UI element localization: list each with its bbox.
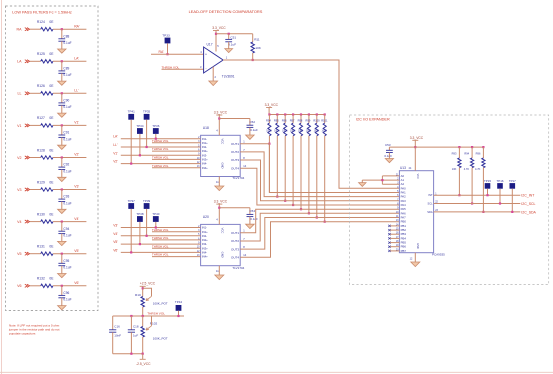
resistor R129 1K [41,188,53,191]
svg-text:LA: LA [17,60,22,64]
node U18 VCC branch [218,117,220,119]
node TP39 junction [146,235,148,237]
node RA' junction [61,28,63,30]
resistor R130 1K [41,220,53,223]
node R96 bottom junction [284,200,286,202]
wire cap to ground [61,137,63,145]
svg-text:TP39: TP39 [143,199,151,203]
wire THRSH VOL rail [113,315,184,317]
wire cap to ground [61,41,63,49]
wire cap lead [61,286,63,296]
svg-text:SDA: SDA [427,210,433,214]
resistor R132 1K [41,284,53,287]
svg-text:R124: R124 [37,20,45,24]
svg-text:3.3_VCC: 3.3_VCC [214,200,228,204]
resistor R94 4.7K I2C pull-up [471,147,473,158]
svg-text:R102: R102 [150,322,158,326]
svg-text:IN4+: IN4+ [202,166,208,170]
wire U17 pin 2 to ground [212,67,214,81]
node LA' junction [61,60,63,62]
svg-text:V4: V4 [17,220,21,224]
svg-text:PB7: PB7 [401,249,407,253]
svg-text:TP44: TP44 [175,300,183,304]
ground [385,159,393,163]
wire input [121,227,201,229]
wire R127 to V1' output [53,124,86,126]
wire VCC to U17 pin 5 [215,31,217,52]
wire no-connect stub [389,246,399,248]
svg-text:VCC: VCC [221,228,225,234]
svg-text:V1': V1' [113,151,118,155]
svg-text:C53: C53 [385,143,391,147]
svg-text:V6: V6 [17,284,21,288]
wire no-connect stub [389,233,399,235]
wire cap lead [61,29,63,39]
resistor R101 100K pull-up [324,115,326,124]
wire C51 lead [228,34,230,40]
wire cap to ground [61,170,63,178]
wire THRSH VOL [152,158,201,160]
svg-text:V6': V6' [74,281,79,285]
svg-text:0.1uF: 0.1uF [63,234,71,238]
ground [58,274,66,278]
svg-text:TP40: TP40 [152,212,160,216]
wire no-connect stub [389,229,399,231]
wire VCC bus to pull-ups [415,146,483,148]
wire R131 to V5' output [53,253,86,255]
svg-text:LL: LL [18,92,22,96]
wire input [121,138,201,140]
svg-text:U13: U13 [400,166,406,170]
wire cap to ground [61,105,63,113]
node R98 bottom junction [300,208,302,210]
svg-text:RA': RA' [74,24,80,28]
ground [58,209,66,213]
svg-text:R101: R101 [321,119,328,123]
svg-text:R94: R94 [464,152,469,156]
svg-text:U18: U18 [203,126,209,130]
node R100 bottom junction [316,216,318,218]
svg-text:LA': LA' [113,135,118,139]
ground [215,275,224,280]
svg-text:INT: INT [428,193,433,197]
svg-text:TLV1704: TLV1704 [232,176,244,180]
wire TP38 stub [139,222,141,244]
svg-text:1uF: 1uF [133,333,138,337]
wire R97 to signal line [292,136,294,205]
svg-text:0.1uF: 0.1uF [63,137,71,141]
resistor R96 100K pull-up [284,115,286,124]
node U20 VCC branch [218,207,220,209]
svg-text:THRSH VOL: THRSH VOL [152,139,169,143]
node TP16 junction [499,202,501,204]
ground [411,262,420,267]
wire U18 GND pin 11 [218,177,220,187]
svg-text:OUT3: OUT3 [231,247,239,251]
node VCC branch [215,33,217,35]
svg-text:0.1uF: 0.1uF [63,41,71,45]
svg-text:C94: C94 [63,227,69,231]
svg-text:R128: R128 [37,148,45,152]
node address bus [381,179,383,181]
wire V1 to R127 [30,124,41,126]
resistor R125 1K [41,60,53,63]
svg-text:V3': V3' [74,185,79,189]
wire cap to ground [61,202,63,210]
wire R100 to signal line [316,136,318,218]
resistor R100 100K pull-up [316,115,318,124]
svg-text:R93: R93 [452,152,457,156]
ground [58,113,66,117]
svg-text:TP33: TP33 [162,34,170,38]
svg-text:SCL: SCL [428,202,434,206]
svg-text:TLV3691: TLV3691 [222,74,235,78]
node TP40 junction [155,226,157,228]
ground [215,186,224,191]
capacitor C93 0.1uF [58,198,65,200]
wire THRSH VOL [152,167,201,169]
svg-text:IN4+: IN4+ [202,255,208,259]
node pull-up R99 top [308,113,310,115]
svg-text:V6': V6' [113,248,118,252]
capacitor C90 0.1uF [58,102,65,104]
resistor R124 1K [41,28,53,31]
svg-text:V1: V1 [17,124,21,128]
wire R98 to signal line [300,136,302,209]
svg-text:0.1uF: 0.1uF [228,43,236,47]
node pull-up R96 top [482,146,484,148]
svg-text:V4': V4' [113,232,118,236]
node R99 bottom junction [308,212,310,214]
node TP41 junction [130,163,132,165]
wire TP40 stub [155,222,157,228]
wire cap lead [61,158,63,168]
wire R95 to signal line [276,136,278,197]
node R96 bottom [482,211,484,213]
capacitor C52 0.1uF [249,119,251,126]
I/O expander U13 PCA9535 body [399,171,433,253]
node V4' junction [61,221,63,223]
svg-text:LL': LL' [74,89,79,93]
svg-text:V5: V5 [17,252,21,256]
ground [246,224,255,228]
svg-text:V2': V2' [113,160,118,164]
svg-text:4.7K: 4.7K [475,167,481,171]
svg-text:C95: C95 [63,259,69,263]
svg-text:R99: R99 [306,119,311,123]
capacitor C95 0.1uF [58,262,65,264]
node pull-up R100 top [316,113,318,115]
svg-text:R95: R95 [274,119,279,123]
node TP38 junction [139,243,141,245]
node pull-up R97 top [292,113,294,115]
svg-text:C93: C93 [63,195,69,199]
wire cap lead [61,222,63,232]
wire VCC branch to C54 [219,207,250,209]
svg-text:C96: C96 [63,291,69,295]
wire pull-up bus [269,114,325,116]
svg-text:C52: C52 [250,120,256,124]
capacitor C91 0.1uF [58,134,65,136]
wire no-connect stub [389,250,399,252]
capacitor C92 0.1uF [58,166,65,168]
svg-text:3.3_VCC: 3.3_VCC [410,136,424,140]
wire TP35 stub [146,120,148,147]
node C51 branch [228,33,230,35]
wire no-connect stub [389,237,399,239]
svg-text:-2.5_VCC: -2.5_VCC [136,362,151,366]
wire R128 to V2' output [53,157,86,159]
resistor R94 100K pull-up [268,115,270,124]
node TP44 junction [177,315,179,317]
quad comparator U20 TLV1704 body [201,224,241,265]
wire RA to R124 [30,28,41,30]
svg-text:100K: 100K [314,131,320,133]
wire TP34 stub [139,134,141,155]
svg-text:GND: GND [221,252,225,258]
svg-text:populate capacitors: populate capacitors [9,331,36,335]
wire U13 GND pin 12 [414,253,416,262]
wire cap lead [61,125,63,135]
wire R99 to signal line [308,136,310,214]
wire input [121,251,201,253]
node pull-up R98 top [300,113,302,115]
svg-text:3.3_VCC: 3.3_VCC [214,111,228,115]
resistor R93 10K I2C pull-up [458,147,460,158]
svg-text:R127: R127 [37,116,45,120]
svg-text:I2C_INT: I2C_INT [521,194,535,198]
svg-text:R96: R96 [476,152,481,156]
node TP36 junction [155,138,157,140]
wire V2 to R128 [30,157,41,159]
ground [58,241,66,245]
svg-text:V2: V2 [17,156,21,160]
node R94 bottom junction [268,143,270,145]
capacitor C89 0.1uF [58,70,65,72]
svg-text:10K: 10K [255,46,261,50]
node R94 bottom [471,202,473,204]
wire bottom rail [113,353,143,355]
wire VCC branch to C53 [389,146,415,148]
wire input [121,235,201,237]
svg-text:+2.5_VCC: +2.5_VCC [140,282,156,286]
ground [209,81,218,86]
wire TP39 stub [146,209,148,236]
svg-text:10nF: 10nF [114,333,121,337]
wire A1 to ground [362,179,399,181]
svg-text:0.1uF: 0.1uF [63,266,71,270]
svg-text:C54: C54 [250,209,256,213]
node V1' junction [61,124,63,126]
wire THRSH VOL [152,256,201,258]
node V6' junction [61,285,63,287]
op-amp U17 TLV3691 comparator [204,47,224,73]
wire VCC branch to R11 [216,33,253,35]
wire SCL line [434,203,521,205]
svg-text:3.3_VCC: 3.3_VCC [212,26,226,30]
wire TP44 stub [178,311,180,316]
wire V5 to R131 [30,253,41,255]
resistor R11 10K pull-up [252,34,254,42]
node pull-up R101 top [324,113,326,115]
svg-text:THRSH VOL: THRSH VOL [152,164,169,168]
svg-text:0.1uF: 0.1uF [250,128,258,132]
svg-text:V4': V4' [74,217,79,221]
svg-text:TP36: TP36 [152,124,160,128]
svg-text:0.1uF: 0.1uF [384,154,392,158]
svg-text:GND: GND [221,163,225,169]
node TP37 junction [130,251,132,253]
node R11 to output [252,59,254,61]
svg-text:RA': RA' [159,50,165,54]
node TP34 junction [139,154,141,156]
wire cap lead [61,61,63,71]
node R95 bottom junction [276,196,278,198]
svg-text:0.1uF: 0.1uF [63,298,71,302]
svg-text:OUT2: OUT2 [231,239,239,243]
wire pot to bottom rail [142,337,144,354]
node R101 bottom junction [324,221,326,223]
wire THRSH VOL [152,247,201,249]
svg-text:THRSH VOL: THRSH VOL [152,147,169,151]
svg-text:R131: R131 [37,245,45,249]
wire LA to R125 [30,60,41,62]
svg-text:100K: 100K [274,131,280,133]
svg-text:C91: C91 [63,131,69,135]
svg-text:V3: V3 [17,188,21,192]
svg-text:TP41: TP41 [128,110,136,114]
node V3' junction [61,188,63,190]
dashed frame: I2C I/O expander section [350,115,549,285]
capacitor C54 0.1uF [249,208,251,215]
svg-text:100K: 100K [322,131,328,133]
wire R101 to signal line [324,136,326,222]
svg-text:C89: C89 [63,67,69,71]
wire input [121,146,201,148]
wire RA' to U17 pin 4 [151,53,204,55]
wire R94 to line [471,168,473,204]
wire R125 to LA' output [53,60,86,62]
ground [58,177,66,181]
svg-text:R129: R129 [37,180,45,184]
svg-text:I2C_SDA: I2C_SDA [521,210,536,214]
svg-text:R11: R11 [254,38,260,42]
capacitor C94 0.1uF [58,230,65,232]
wire TP36 stub [155,134,157,139]
ground [225,49,233,53]
capacitor C51 0.1uF [225,38,232,40]
node rail-pot [142,315,144,317]
wire THRSH VOL [152,231,201,233]
wire VCC branch to C52 [219,118,250,120]
node R97 bottom junction [292,204,294,206]
wire THRSH VOL to U17 pin 3 [162,68,204,70]
wire input [121,163,201,165]
node TP35 junction [146,146,148,148]
svg-text:0.1uF: 0.1uF [63,73,71,77]
svg-text:100K_POT: 100K_POT [153,301,168,305]
node V2' junction [61,156,63,158]
svg-text:R97: R97 [290,119,295,123]
svg-text:TP37: TP37 [128,199,136,203]
ground for address pins [361,180,363,183]
svg-text:TLV1704: TLV1704 [232,266,244,270]
node R93 bottom [458,194,460,196]
node U13 VCC branch [414,146,416,148]
wire pot to THRSH VOL rail [142,307,144,316]
node LL' junction [61,92,63,94]
resistor R128 1K [41,156,53,159]
svg-text:TP17: TP17 [509,179,516,183]
svg-text:100K: 100K [282,131,288,133]
page border [1,0,3,374]
wire R96 to signal line [284,136,286,201]
wire U20 GND pin 11 [218,266,220,275]
wire cap lead [61,93,63,103]
svg-text:C88: C88 [63,34,69,38]
svg-text:TP38: TP38 [136,212,144,216]
svg-text:C90: C90 [63,99,69,103]
capacitor C53 0.1uF [388,147,390,150]
wire TP33 to RA' input [167,43,169,54]
ground [58,49,66,53]
svg-text:100K: 100K [306,131,312,133]
svg-text:100K_POT: 100K_POT [153,336,168,340]
wire TP17 stub [511,189,513,212]
svg-text:THRSH VOL: THRSH VOL [147,312,165,316]
wire no-connect stub [389,242,399,244]
wire TP37 stub [130,209,132,253]
wire cap lead [61,190,63,200]
wire address bus vertical [381,176,383,184]
svg-text:V5': V5' [74,249,79,253]
dashed frame: low-pass filter section [6,6,99,311]
svg-text:100K: 100K [290,131,296,133]
wire input [121,154,201,156]
resistor R96 4.7K I2C pull-up [482,147,484,158]
svg-text:OUT2: OUT2 [231,150,239,154]
svg-text:0.1uF: 0.1uF [63,105,71,109]
wire R126 to LL' output [53,92,86,94]
svg-text:R98: R98 [298,119,303,123]
svg-text:OUT4: OUT4 [231,256,239,260]
wire TP16 stub [499,189,501,204]
resistor R131 1K [41,252,53,255]
wire A2 to address bus [382,183,399,185]
node wiper tie top pot [142,287,144,289]
svg-text:C16: C16 [114,325,120,329]
svg-text:R132: R132 [37,277,45,281]
resistor R126 1K [41,92,53,95]
resistor R95 100K pull-up [276,115,278,124]
svg-text:R126: R126 [37,84,45,88]
svg-text:C18: C18 [133,325,139,329]
svg-text:U17: U17 [207,43,213,47]
svg-text:V5': V5' [113,240,118,244]
wire R132 to V6' output [53,285,86,287]
capacitor C88 0.1uF [58,38,65,40]
svg-text:V1': V1' [74,121,79,125]
svg-text:I2C I/O EXPANDER: I2C I/O EXPANDER [356,118,390,122]
node TP33 junction [166,53,168,55]
svg-text:LA': LA' [74,57,79,61]
wire C51 to ground [228,42,230,49]
node pull-up R93 top [458,146,460,148]
resistor R99 100K pull-up [308,115,310,124]
wire SDA line [434,211,521,213]
capacitor C96 0.1uF [58,294,65,296]
wire INT line [434,194,521,196]
